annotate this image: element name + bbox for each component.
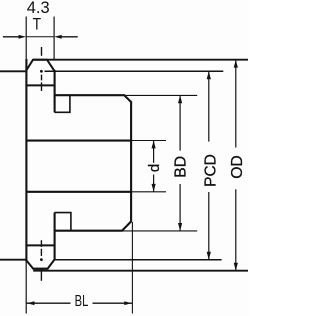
dimension T line (26, 36, 54, 38)
dimension BL right arrowhead (124, 301, 132, 305)
BD extension line bottom (122, 230, 197, 232)
svg-text:OD: OD (229, 155, 246, 179)
dimension OD line (235, 60, 237, 271)
left face extension line (25, 17, 27, 314)
svg-text:d: d (146, 164, 163, 172)
dimension PCD top arrowhead (207, 71, 211, 79)
svg-text:BD: BD (172, 156, 189, 178)
set screw hole top (54, 95, 70, 112)
bottom root line (25, 244, 54, 246)
bottom tooth (27, 260, 54, 269)
top root line (25, 84, 54, 86)
tooth centerline top (41, 47, 43, 91)
dimension BL left arrowhead (27, 301, 35, 305)
pitch line bottom right segment / PCD extension (54, 259, 221, 261)
pitch line top left segment (0, 70, 28, 72)
dimension T left tail (3, 36, 20, 38)
set screw hole bottom (54, 213, 71, 231)
tooth top edge / OD top extension line (33, 59, 248, 61)
dimension OD top arrowhead (234, 60, 238, 68)
pitch line bottom left segment (0, 259, 26, 261)
OD bottom extension line (33, 270, 248, 272)
dimension T right tail (61, 36, 78, 38)
plate right face lower segment (54, 213, 56, 261)
dimension d top arrowhead (152, 141, 156, 149)
svg-text:PCD: PCD (203, 154, 220, 187)
bore top line (26, 140, 131, 142)
tooth bottom edge (33, 268, 47, 270)
dimension BL line (26, 302, 132, 304)
dimension d bottom arrowhead (152, 184, 156, 192)
T right extension line (53, 17, 55, 60)
svg-text:BL: BL (75, 292, 89, 309)
top tooth (27, 60, 54, 71)
pitch point dot top (40, 70, 43, 73)
dimension BD line (179, 95, 181, 231)
d extension line bottom (131, 191, 166, 193)
dimension OD bottom arrowhead (234, 263, 238, 271)
dimension T right arrowhead (54, 35, 62, 39)
tooth centerline bottom (40, 240, 42, 281)
bore bottom line (26, 191, 131, 193)
plate right face upper segment (54, 70, 56, 112)
dimension d line (153, 141, 155, 192)
hub outline (54, 95, 131, 231)
dimension PCD line (208, 71, 210, 259)
dimension PCD bottom arrowhead (207, 252, 211, 260)
BL right extension line (131, 222, 133, 314)
svg-text:T: T (33, 15, 41, 33)
dimension BD bottom arrowhead (178, 223, 182, 231)
pitch line top right segment / PCD extension (45, 70, 224, 72)
pitch point dot bottom (40, 258, 43, 261)
BD extension line top (124, 94, 197, 96)
dimension BD top arrowhead (178, 95, 182, 103)
d extension line top (131, 140, 166, 142)
dimension T left arrowhead (19, 35, 27, 39)
left face line (25, 59, 27, 262)
